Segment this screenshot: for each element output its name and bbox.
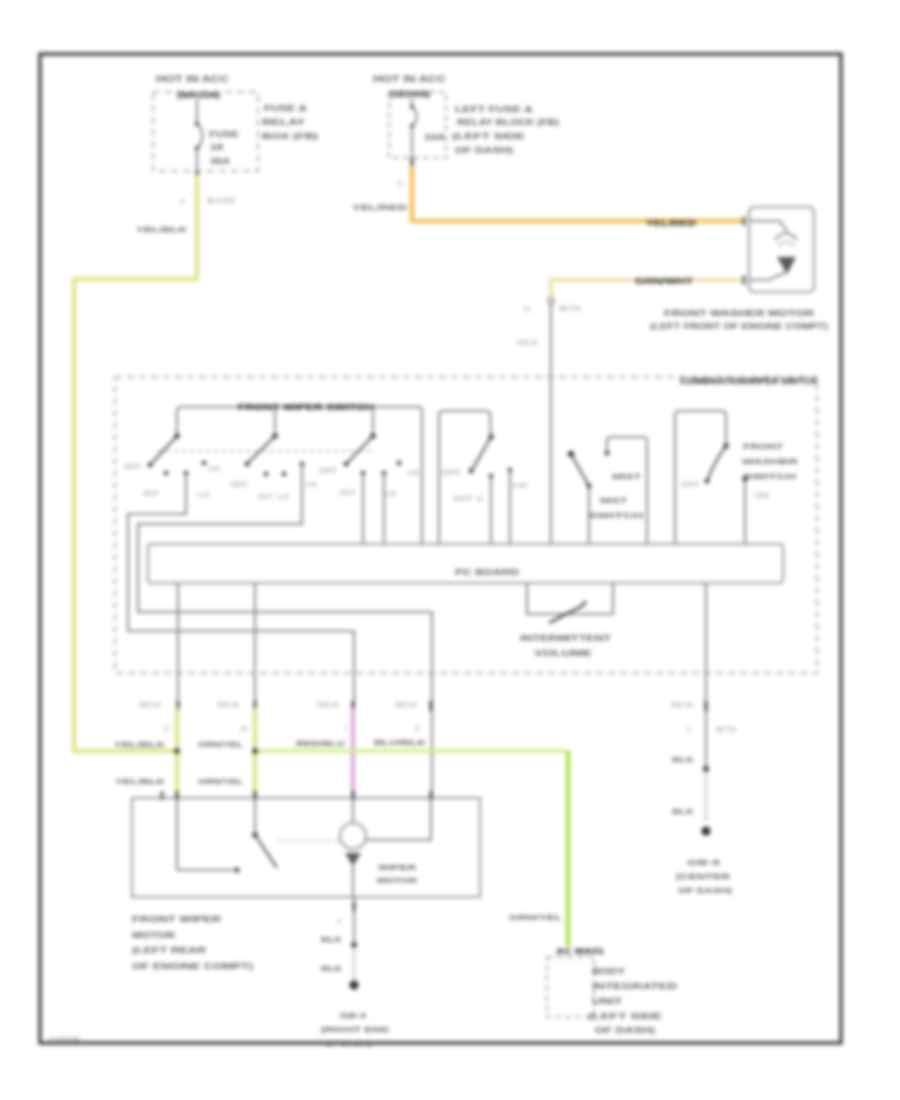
- svg-text:YEL/RED: YEL/RED: [352, 203, 408, 212]
- svg-text:WIPER: WIPER: [378, 863, 417, 872]
- svg-text:8: 8: [415, 726, 419, 733]
- svg-text:HOT IN ACC: HOT IN ACC: [156, 74, 230, 84]
- svg-text:OFF: OFF: [319, 468, 337, 475]
- svg-text:GB-3: GB-3: [340, 1011, 366, 1020]
- fuse block F1 (FB) dashed box: [153, 74, 318, 171]
- svg-text:FRONT WASHER MOTOR: FRONT WASHER MOTOR: [664, 308, 814, 318]
- colored wire segments to wiper motor: [177, 708, 353, 795]
- wire color labels row 1: [114, 738, 427, 749]
- svg-text:INT: INT: [143, 491, 160, 498]
- svg-text:LO: LO: [384, 491, 397, 498]
- svg-text:OF DASH): OF DASH): [678, 886, 733, 895]
- svg-text:BLK: BLK: [672, 755, 695, 764]
- svg-text:LEFT FUSE &: LEFT FUSE &: [455, 104, 533, 114]
- combination switch dashed box: [115, 376, 817, 673]
- svg-text:NCA: NCA: [217, 702, 239, 709]
- svg-text:FUSE: FUSE: [209, 130, 240, 139]
- svg-text:BLK: BLK: [672, 807, 695, 816]
- ground GB-3 from wiper motor: [321, 897, 390, 1048]
- svg-text:B155: B155: [207, 196, 235, 205]
- svg-text:RELAY: RELAY: [262, 117, 306, 127]
- svg-text:GRN/YEL: GRN/YEL: [198, 740, 244, 749]
- svg-text:10A: 10A: [424, 133, 445, 142]
- svg-text:NCA: NCA: [517, 338, 538, 347]
- wire pole1 LO to wiper motor +: [128, 473, 354, 795]
- svg-text:MIST: MIST: [600, 496, 628, 505]
- svg-text:HI: HI: [209, 466, 220, 473]
- wire GRN/YEL branch to body integrated unit: [255, 751, 568, 946]
- svg-text:BLU/BLK: BLU/BLK: [374, 738, 427, 747]
- svg-text:GRN/YEL: GRN/YEL: [198, 777, 244, 786]
- mechanical link: [158, 450, 370, 452]
- svg-text:PC BOARD: PC BOARD: [455, 568, 519, 577]
- svg-text:YEL/BLK: YEL/BLK: [115, 777, 166, 786]
- fuse block F2 dashed box: [373, 74, 559, 158]
- wire color labels row 2: [115, 777, 244, 786]
- svg-text:INT 2: INT 2: [453, 496, 483, 503]
- svg-text:OFF: OFF: [441, 470, 461, 477]
- svg-text:YEL/BLK: YEL/BLK: [114, 740, 166, 749]
- front wiper switch bus: [177, 402, 422, 544]
- front wiper motor M1 box: [132, 791, 480, 897]
- svg-text:GB-5: GB-5: [687, 858, 720, 867]
- svg-text:B75: B75: [559, 304, 581, 313]
- svg-text:MOTOR: MOTOR: [377, 876, 418, 885]
- svg-text:HI: HI: [408, 470, 419, 477]
- svg-text:RED/BLU: RED/BLU: [296, 739, 345, 748]
- svg-text:11: 11: [523, 304, 531, 313]
- connector pin A / B155: [136, 171, 235, 234]
- svg-text:OF DASH): OF DASH): [595, 1026, 656, 1035]
- svg-text:NCA: NCA: [395, 702, 417, 709]
- svg-text:(LEFT REAR: (LEFT REAR: [132, 945, 206, 955]
- svg-text:30A: 30A: [210, 157, 230, 166]
- front wiper motor label: [132, 914, 253, 971]
- svg-text:GRN/WHT: GRN/WHT: [635, 277, 693, 286]
- svg-text:(LEFT FRONT OF ENGINE COMPT): (LEFT FRONT OF ENGINE COMPT): [650, 321, 828, 331]
- svg-text:(WAGON): (WAGON): [177, 90, 220, 100]
- svg-text:FRONT: FRONT: [743, 442, 784, 451]
- fuse F2: [410, 99, 445, 158]
- connector pin 6: [352, 158, 413, 212]
- svg-text:AC MA01: AC MA01: [556, 947, 605, 956]
- svg-text:INT: INT: [258, 494, 274, 501]
- svg-text:FRONT WIPER: FRONT WIPER: [132, 914, 221, 924]
- fuse F1: [195, 100, 240, 171]
- body integrated unit: [509, 913, 677, 1035]
- svg-text:SWITCH: SWITCH: [743, 472, 796, 481]
- svg-text:GRN/YEL: GRN/YEL: [509, 913, 563, 922]
- PC board U1: [148, 544, 783, 583]
- svg-text:VOLUME: VOLUME: [534, 649, 593, 658]
- svg-text:MIST: MIST: [612, 472, 642, 481]
- wires from PC board bottom: [178, 583, 706, 795]
- svg-text:B75: B75: [716, 727, 736, 734]
- svg-text:HI: HI: [306, 482, 317, 489]
- svg-text:OF DASH): OF DASH): [325, 1039, 372, 1048]
- inline connector 11 B75: [517, 298, 581, 347]
- svg-text:(LEFT SIDE: (LEFT SIDE: [452, 131, 526, 141]
- svg-text:YEL/RED: YEL/RED: [646, 219, 696, 228]
- junction dots: [174, 748, 258, 754]
- svg-text:(LEFT SIDE: (LEFT SIDE: [588, 1012, 663, 1021]
- wiper motor internal park switch: [177, 798, 340, 873]
- intermittent volume VR1: [520, 583, 613, 658]
- svg-text:4: 4: [337, 919, 341, 926]
- svg-text:OF DASH): OF DASH): [455, 145, 513, 155]
- svg-text:ON: ON: [755, 493, 769, 500]
- svg-text:(CENTER: (CENTER: [676, 872, 731, 881]
- svg-text:LO: LO: [277, 494, 290, 501]
- svg-text:OF ENGINE COMPT): OF ENGINE COMPT): [132, 961, 253, 971]
- svg-text:NCA: NCA: [317, 702, 339, 709]
- svg-text:FUSE &: FUSE &: [264, 103, 307, 113]
- svg-text:BODY: BODY: [592, 967, 626, 976]
- svg-text:16: 16: [240, 726, 248, 733]
- svg-text:2: 2: [687, 727, 691, 734]
- svg-text:(SEDAN): (SEDAN): [390, 89, 430, 99]
- svg-text:18: 18: [210, 143, 224, 152]
- wire pole2 HI to wiper motor: [138, 464, 432, 795]
- svg-text:INTERMITTENT: INTERMITTENT: [520, 634, 611, 643]
- ground GB-5 from PC board: [672, 755, 733, 895]
- wiper switch pole 1: [124, 433, 220, 499]
- svg-text:LO: LO: [197, 492, 211, 499]
- front washer switch: [675, 411, 799, 544]
- svg-text:UNIT: UNIT: [592, 997, 622, 1006]
- svg-text:NCA: NCA: [139, 702, 161, 709]
- intermittent switch INT2: [439, 411, 527, 544]
- wire YEL/BLK from fuse F1: [74, 175, 197, 751]
- svg-text:YEL/BLK: YEL/BLK: [136, 225, 188, 234]
- svg-text:SWITCH: SWITCH: [588, 511, 643, 520]
- svg-text:COMBINATION/WIPER SWITCH: COMBINATION/WIPER SWITCH: [680, 376, 817, 386]
- mist switch: [568, 437, 647, 544]
- svg-text:BLK: BLK: [321, 964, 343, 973]
- svg-text:A72054-BB: A72054-BB: [49, 1037, 80, 1043]
- svg-text:HOT IN ACC: HOT IN ACC: [373, 74, 447, 84]
- wiper switch pole 2: [230, 407, 317, 501]
- connector row NCA below combination switch: [139, 701, 708, 711]
- wiper motor symbol: [340, 798, 431, 897]
- svg-text:FRONT WIPER SWITCH: FRONT WIPER SWITCH: [238, 402, 374, 412]
- svg-text:NCA: NCA: [671, 702, 693, 709]
- svg-text:6: 6: [398, 179, 402, 188]
- svg-text:(RIGHT END: (RIGHT END: [321, 1025, 390, 1034]
- wire GRN/WHT washer motor return: [551, 277, 745, 298]
- svg-text:4: 4: [180, 197, 184, 206]
- front washer motor M2: [650, 207, 828, 331]
- svg-text:BLK: BLK: [321, 935, 343, 944]
- svg-text:17: 17: [163, 726, 171, 733]
- svg-text:WASHER: WASHER: [742, 457, 799, 466]
- wire washer switch feed: [550, 304, 552, 544]
- svg-text:RELAY BLOCK (FB): RELAY BLOCK (FB): [457, 117, 559, 127]
- svg-text:OFF: OFF: [230, 482, 248, 489]
- svg-text:OFF: OFF: [681, 482, 700, 489]
- wiper switch pole 3: [319, 407, 419, 544]
- pin numbers: [163, 726, 736, 734]
- svg-text:7: 7: [344, 726, 348, 733]
- svg-text:INT: INT: [340, 490, 357, 497]
- svg-text:BOX (FB): BOX (FB): [262, 131, 318, 141]
- svg-text:OFF: OFF: [124, 464, 141, 471]
- svg-text:MOTOR: MOTOR: [132, 930, 175, 940]
- wire YEL/RED to washer motor: [412, 166, 745, 228]
- svg-text:HI: HI: [513, 483, 527, 490]
- svg-text:INTEGRATED: INTEGRATED: [592, 982, 677, 991]
